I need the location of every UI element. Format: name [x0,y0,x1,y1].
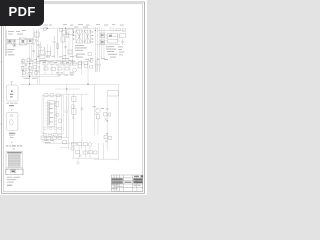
capacitor C20 [38,67,40,68]
resistor R51 [83,143,87,146]
resistor row bottom2 [43,134,62,136]
capacitor C4 [121,39,124,45]
resistor R45 [41,136,45,140]
label R5 value [39,59,47,62]
wire h3 [95,44,120,46]
wire band v2 [51,60,53,75]
wire band v4 [63,60,65,75]
label band low1 [56,72,74,75]
wire mid h top2 [60,93,89,95]
transformer T1 primary winding [76,30,82,43]
resistor R48 [58,137,62,140]
wire band v5 [69,60,71,75]
resistor R2 [60,28,63,31]
label T1 line1 [75,45,84,46]
diode D8 [59,119,62,122]
resistor R42 cluster [104,113,111,121]
capacitor C10 electrolytic [7,82,18,102]
resistor R50 [78,142,82,145]
resistor R21 [28,72,31,75]
resistor R33 [44,94,48,97]
resistor R36 [55,102,59,107]
label q4 [93,106,104,109]
transformer T2 body [6,152,23,175]
wire input v5 [4,25,6,30]
transistor Q4 [95,106,100,114]
label BT1 line3 [10,136,13,139]
label code row [6,145,22,147]
resistor R29 [51,68,56,71]
label C10 tick [11,109,13,110]
label T1 top [74,26,88,29]
wire mid v1 [43,97,45,134]
resistor R27 [68,61,73,65]
wire sec row [60,62,76,64]
wire top rail [40,27,98,29]
diode D3 [88,52,91,55]
resistor R46 [47,137,51,140]
resistor R19 [33,66,36,69]
bridge D1 fill [22,40,25,43]
label T1 line5 [76,57,83,58]
wire ac bottom [7,43,37,45]
wire bm h1 [45,142,76,144]
diode D2 [68,50,72,54]
resistor R6 [57,29,59,58]
resistor R38 [72,109,76,114]
resistor R15 [27,59,30,62]
wire bm h2 [72,157,99,159]
resistor R11 [110,28,113,30]
wire band v1 [44,60,46,75]
label T1 line3 [75,50,83,51]
label BT1 line1 [9,133,15,134]
wire bm v2 [53,140,55,144]
capacitor C18 [37,45,40,46]
label BT1 tick [11,141,13,144]
resistor R54 [89,151,93,154]
capacitor C3 [64,47,67,48]
wire v4 [65,28,67,62]
resistor R34 [50,94,54,97]
IC U3 internal text [49,104,53,123]
resistor R10 [100,40,104,44]
node far1 [107,120,108,121]
wire bm v3 [73,146,75,158]
IC U3 pins left [45,103,47,124]
resistor R12 [116,28,120,30]
resistor R30 [58,67,62,70]
label U2 line1 [106,46,114,47]
wire far v1 [106,96,108,151]
resistor R17 [21,66,24,69]
wire cluster h3 [21,76,60,78]
wire band stub2 [38,77,40,85]
transistor Q5 [88,143,92,147]
capacitor C1 [35,30,38,60]
label T2 line3 [7,181,14,184]
T1 pin nodes [73,32,93,43]
wire bus b2 [97,27,99,72]
resistor R16 [34,59,37,62]
wire band h1 [40,59,75,61]
IC U2 dark marks [101,34,112,43]
label mid bottom text [44,140,54,143]
resistor R18 [28,67,31,70]
transformer T2 base [5,169,23,175]
resistor R35 [56,94,60,97]
resistor R28 [44,67,48,70]
transformer T2 windings [8,154,20,168]
wire band bottom [40,74,74,76]
resistor R57 [63,141,67,144]
label cluster a [21,61,39,79]
wire ac top [7,39,37,41]
wire loop right [108,91,119,97]
wire bm h3 [94,158,119,160]
wire h2 [98,29,126,31]
title block [111,175,143,191]
label U2 line4 [108,54,117,55]
label T1 line2 [75,47,87,48]
wire v8 [103,28,105,58]
wire cluster h2 [21,69,41,71]
wire neutral down [31,45,33,62]
wire bm left h [60,146,68,148]
wire rm v4 [97,119,99,135]
wire bm v5 [84,146,86,158]
label U2 line5 [110,57,116,58]
label zone1 [62,57,69,60]
wire input v4 [37,28,39,58]
capacitor C19 [25,65,27,66]
wire cluster v6 [38,60,40,77]
wire bus b1 [94,27,96,72]
IC U3 pins right [54,103,57,124]
wire dc rail down [29,45,31,84]
wire mid v3 [61,95,63,133]
node t5 [66,88,67,89]
wire rm v2 [81,94,83,150]
capacitor C17 [32,50,35,51]
wire bm v4 [79,146,81,158]
resistor R53 [83,151,87,154]
resistor R49 [72,142,76,145]
wire rm v3 [94,84,96,135]
wire q2 v [87,60,89,84]
wire bm v7 [98,143,100,159]
resistor R52 [76,151,80,154]
battery BT1 [7,112,18,130]
bridge rectifier D1 [20,38,27,45]
wire band v3 [57,60,59,75]
wire mid h top3 [55,88,80,90]
label right col [104,46,124,60]
resistor R26 [62,62,66,66]
wire rm v1 [67,94,69,150]
label C10 line2 [9,105,14,106]
diode D10 [44,47,46,50]
resistor R56 [71,147,74,150]
resistor R8 [61,36,65,42]
resistor R24 [50,62,54,65]
filter L1 fill [29,40,32,43]
resistor R62 [84,61,88,64]
node c1 [22,63,36,71]
resistor R13 [122,29,125,32]
transformer T1 secondary winding [84,30,90,43]
IC U2 pins [105,35,121,41]
wire bm v1 [42,140,44,144]
label U2 line2 [106,49,116,50]
resistor R40 [96,114,99,119]
wire bus drop right [118,84,120,160]
node t4 [29,76,30,77]
fuse F1 [8,39,12,43]
resistor R4 [46,52,51,55]
resistor R7 [67,29,74,34]
wire mid bottom1 [42,136,68,138]
wire cluster h1 [21,63,41,65]
IC U2 [108,33,118,43]
diode D9 [72,116,75,119]
resistor R37 [72,96,76,101]
wire cluster v4 [32,60,34,77]
wire q1 v [81,60,83,75]
transformer T2 divider [6,168,23,169]
resistor R5 [39,56,45,59]
resistor R14 [22,60,25,63]
label top row2 [44,24,125,25]
wire cluster v3 [29,58,31,80]
capacitor C6 [98,60,101,72]
wire bm v8 [103,143,105,159]
wire bus b3 [99,27,101,60]
capacitor C16 [39,42,42,54]
resistor R59 [62,30,65,34]
wire v3 [62,28,64,62]
resistor R22 [35,72,38,75]
transistor Q3 [71,105,75,109]
wire q3 v [72,94,74,145]
resistor R9 [100,33,104,37]
label T1 line4 [76,54,85,55]
wire gnd stub [77,158,79,162]
resistor R55 [94,151,97,154]
label band mid [37,55,105,60]
capacitor C10 polarity marks [10,91,13,98]
label U2 line3 [107,51,114,52]
border frame [2,2,145,193]
wire v7 [100,28,102,58]
resistor row bottom1 [44,127,61,129]
resistor R25 [56,61,61,65]
label band mid2 [37,61,75,63]
resistor R20 [22,72,25,75]
node B [29,84,30,85]
wire mid v4 [66,84,68,95]
filter box L1 [28,38,33,43]
resistor R64 [85,65,88,68]
relay K1 fill [13,40,15,46]
zone tick left 2 [0,123,3,125]
wire input v3 [33,28,35,58]
diode D7 [79,154,82,157]
wire band stub1 [36,77,38,85]
connector J1 AC input [5,30,6,56]
transformer T2 core block [11,170,16,173]
label BT1 line2 [9,134,15,137]
resistor R31 [65,67,69,70]
wire mid v2 [55,95,57,133]
label code tick [13,148,16,151]
capacitor C5 [95,60,98,72]
wire cluster v5 [35,58,37,80]
wire v6 [72,28,74,62]
resistor R43 cluster [104,136,111,143]
IC U3 [48,101,55,127]
wire main bus [20,83,119,85]
label C10 line1 [6,102,17,105]
capacitor C2 [53,36,56,58]
node t2 [65,28,66,29]
enclosure middle block [42,95,63,133]
capacitor C15 [80,108,83,109]
resistor R32 [78,62,82,68]
wire cluster v1 [22,58,24,80]
relay K1 [13,39,16,46]
wire bm v6 [89,146,91,158]
node far2 [107,133,108,134]
capacitor C14 [106,108,109,109]
ground [76,162,80,164]
node t3 [95,30,96,31]
resistor R1 [43,27,46,30]
diode D4 [120,34,126,38]
resistor R65 [90,66,93,68]
resistor R60 [66,33,68,37]
resistor R66 [90,60,93,63]
node A [87,84,88,85]
wire v2 [49,46,51,56]
node t1 [47,28,48,29]
zone tick left 1 [0,61,3,63]
resistor R47 [52,136,57,140]
resistor R3 [39,51,45,55]
resistor R58 [34,32,39,37]
label top ac1 [8,30,26,35]
fuse F1 fill [8,40,10,42]
wire cluster v2 [25,60,27,77]
transistor Q6 [56,113,59,116]
label T2 line2 [7,178,16,181]
label FUSE text [7,49,14,55]
capacitor C12 [65,96,68,137]
transistor Q1 [73,62,77,73]
title block text smudges [112,175,144,189]
resistor R63 [89,60,91,61]
label T2 line4 [7,185,12,186]
resistor R61 [78,62,82,65]
label T2 line1 [7,176,20,179]
resistor R23 [43,61,48,65]
transformer T1 pins [73,32,94,42]
wire v1 [46,44,48,58]
wire v5 [68,28,70,62]
